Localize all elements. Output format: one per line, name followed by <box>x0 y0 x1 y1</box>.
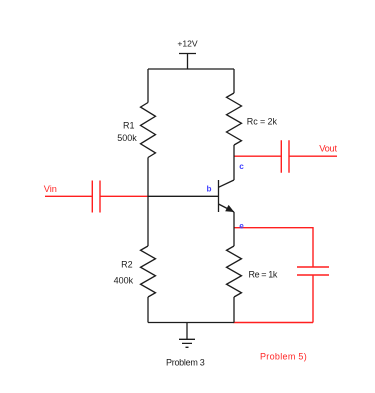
svg-text:Vin: Vin <box>44 184 57 194</box>
svg-text:c: c <box>239 162 244 171</box>
svg-text:500k: 500k <box>117 133 137 143</box>
svg-text:Vout: Vout <box>319 144 337 154</box>
svg-text:Problem 3: Problem 3 <box>166 358 205 368</box>
svg-text:+12V: +12V <box>177 39 198 49</box>
svg-text:R2: R2 <box>121 259 133 269</box>
svg-text:b: b <box>207 184 212 193</box>
svg-text:Re = 1k: Re = 1k <box>249 269 278 279</box>
svg-text:R1: R1 <box>123 120 135 130</box>
svg-text:Problem 5): Problem 5) <box>260 351 307 361</box>
svg-text:Rc = 2k: Rc = 2k <box>247 116 278 126</box>
svg-text:e: e <box>239 222 244 231</box>
svg-text:400k: 400k <box>114 276 134 286</box>
